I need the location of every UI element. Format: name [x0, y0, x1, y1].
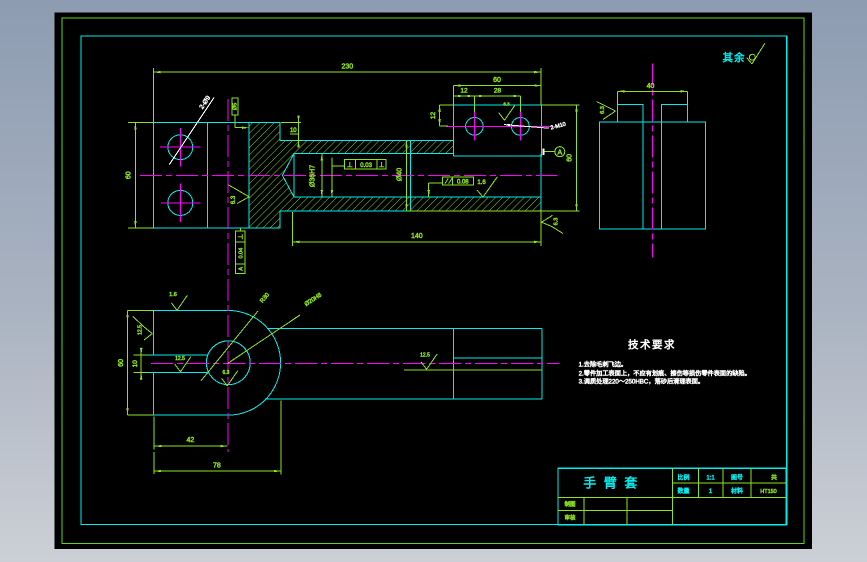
svg-text:78: 78 — [213, 463, 221, 470]
svg-text:⊥: ⊥ — [238, 234, 245, 240]
svg-text:制图: 制图 — [564, 500, 576, 508]
svg-text:审核: 审核 — [564, 514, 576, 522]
svg-text:数量: 数量 — [677, 487, 689, 495]
svg-text:2.零件加工表面上，不应有划痕、擦伤等损伤零件表面的缺陷。: 2.零件加工表面上，不应有划痕、擦伤等损伤零件表面的缺陷。 — [579, 370, 751, 378]
svg-text:技术要求: 技术要求 — [628, 338, 676, 351]
svg-text:10: 10 — [132, 360, 139, 368]
svg-text:其余: 其余 — [723, 51, 746, 64]
svg-text:6.3: 6.3 — [231, 195, 237, 204]
svg-text:0.08: 0.08 — [457, 179, 469, 185]
svg-text:60: 60 — [567, 154, 574, 162]
svg-text:Ø36H7: Ø36H7 — [310, 165, 317, 187]
svg-text:40: 40 — [647, 83, 655, 90]
svg-text:6.3: 6.3 — [554, 218, 560, 226]
svg-text:0.03: 0.03 — [360, 163, 372, 169]
svg-text:28: 28 — [494, 88, 502, 95]
svg-text:1.6: 1.6 — [169, 292, 177, 298]
svg-text:共: 共 — [771, 474, 777, 482]
svg-text:6.3: 6.3 — [503, 102, 510, 107]
svg-text:12: 12 — [430, 112, 437, 120]
svg-text:比例: 比例 — [677, 474, 689, 482]
svg-text:A: A — [239, 267, 245, 271]
svg-text:230: 230 — [341, 64, 353, 71]
svg-text:60: 60 — [118, 359, 125, 367]
svg-text:⊥: ⊥ — [347, 162, 353, 169]
svg-text:1.6: 1.6 — [477, 180, 486, 186]
svg-text:0.04: 0.04 — [239, 248, 245, 259]
svg-text:3.调质处理220～250HBC，落砂后清理表面。: 3.调质处理220～250HBC，落砂后清理表面。 — [579, 377, 705, 385]
svg-text:60: 60 — [493, 77, 501, 84]
svg-text:6.3: 6.3 — [223, 370, 230, 376]
svg-text:材料: 材料 — [731, 487, 743, 495]
svg-text:60: 60 — [126, 171, 133, 179]
svg-text:1:1: 1:1 — [706, 476, 715, 482]
svg-text:42: 42 — [187, 437, 195, 444]
svg-text:1.去除毛刺飞边。: 1.去除毛刺飞边。 — [579, 361, 627, 369]
svg-text:12: 12 — [460, 88, 468, 95]
svg-text:12.5: 12.5 — [138, 325, 144, 335]
svg-text:⊥: ⊥ — [378, 162, 384, 169]
svg-text:HT150: HT150 — [760, 489, 777, 495]
svg-text:12.5: 12.5 — [175, 356, 185, 362]
svg-text:图号: 图号 — [731, 475, 743, 482]
svg-text:12.5: 12.5 — [420, 353, 430, 359]
svg-text:10: 10 — [290, 128, 297, 134]
svg-text:Ø5: Ø5 — [233, 103, 239, 110]
svg-text:6.3: 6.3 — [600, 106, 606, 114]
svg-text:A: A — [557, 149, 562, 156]
svg-text:140: 140 — [411, 233, 423, 240]
svg-text:Ø40: Ø40 — [397, 168, 404, 181]
svg-text:手臂套: 手臂套 — [583, 476, 645, 491]
